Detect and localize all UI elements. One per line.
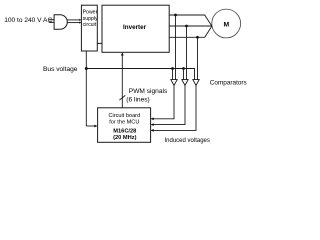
junction dot phase W bbox=[196, 36, 199, 39]
comparator 1 output wire bbox=[152, 85, 174, 118]
arrowhead comparator 1 into MCU bbox=[151, 117, 154, 120]
svg-text:(6 lines): (6 lines) bbox=[126, 97, 149, 104]
plug cable wire lower bbox=[67, 22, 81, 24]
arrowhead into MCU left bbox=[94, 125, 97, 128]
svg-text:Bus voltage: Bus voltage bbox=[43, 66, 78, 73]
comparator 2 bbox=[182, 80, 188, 86]
svg-text:100 to 240 V AC: 100 to 240 V AC bbox=[4, 17, 52, 24]
junction dot bus tap 1 bbox=[171, 67, 174, 70]
svg-text:M: M bbox=[224, 22, 230, 29]
bus wire from power supply down bbox=[85, 51, 87, 126]
junction dot bus tap 2 bbox=[182, 67, 185, 70]
svg-text:Comparators: Comparators bbox=[210, 79, 247, 86]
bus sense wire to comparators bbox=[86, 69, 194, 80]
arrowhead comparator 3 into MCU bbox=[151, 129, 154, 132]
bus tap wire to comparator 1 bbox=[172, 69, 174, 80]
arrowhead PWM into inverter bbox=[121, 52, 124, 55]
inverter box U1 bbox=[102, 5, 169, 52]
bus tap wire to comparator 2 bbox=[183, 69, 185, 80]
svg-text:Induced voltages: Induced voltages bbox=[165, 138, 210, 144]
bus slash 6 lines bbox=[119, 95, 125, 100]
tap wire phase U to comparator 1 bbox=[175, 15, 177, 80]
plug cable wire upper bbox=[67, 19, 81, 21]
arrowhead cable upper bbox=[79, 19, 81, 21]
plug prong 2 bbox=[49, 21, 54, 23]
phase wire U bbox=[169, 15, 212, 26]
svg-text:for the MCU: for the MCU bbox=[109, 119, 139, 125]
svg-text:PWM signals: PWM signals bbox=[129, 88, 168, 95]
comparator 1 bbox=[171, 80, 177, 86]
power supply circuit box bbox=[81, 5, 97, 51]
arrowhead cable lower bbox=[79, 22, 81, 24]
AC plug body bbox=[54, 15, 67, 29]
svg-text:supply: supply bbox=[83, 16, 98, 22]
junction dot phase U bbox=[174, 14, 177, 17]
svg-text:circuit: circuit bbox=[83, 22, 97, 28]
comparator 3 bbox=[193, 80, 199, 86]
plug prong 1 bbox=[49, 19, 54, 21]
arrowhead comparator 2 into MCU bbox=[151, 123, 154, 126]
svg-text:Circuit board: Circuit board bbox=[108, 113, 140, 119]
tap wire phase W to comparator 3 bbox=[197, 37, 199, 79]
comparator 3 output wire bbox=[152, 85, 196, 130]
junction dot bus voltage bbox=[85, 67, 88, 70]
bus wire into MCU bbox=[86, 125, 96, 127]
junction dot phase V bbox=[185, 25, 188, 28]
MCU circuit board box bbox=[98, 108, 151, 143]
PWM wire MCU to inverter bbox=[121, 54, 123, 108]
comparator 2 output wire bbox=[152, 85, 185, 124]
svg-text:Inverter: Inverter bbox=[123, 24, 147, 31]
phase wire V bbox=[169, 25, 212, 27]
svg-text:(20 MHz): (20 MHz) bbox=[113, 135, 136, 141]
motor M bbox=[212, 9, 241, 38]
tap wire phase V to comparator 2 bbox=[186, 26, 188, 80]
svg-text:Power: Power bbox=[83, 10, 98, 16]
phase wire W bbox=[169, 26, 212, 37]
wire power supply to inverter bbox=[97, 42, 102, 44]
svg-text:M16C/28: M16C/28 bbox=[113, 129, 136, 135]
